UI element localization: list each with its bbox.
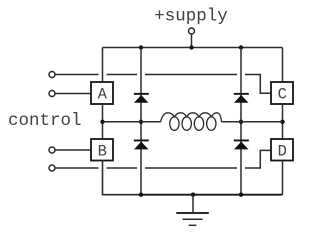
wire right bridge lower — [282, 161, 284, 195]
diode D4 lower-right — [234, 140, 249, 150]
node right diode bottom rail — [239, 193, 243, 197]
node left diode top of motor line — [139, 120, 143, 124]
wire bottom rail — [141, 194, 283, 196]
node top-right diode junction — [239, 45, 243, 49]
wire control C segment 4 to box — [245, 75, 271, 94]
wire right bridge middle — [282, 104, 284, 139]
switch B — [91, 139, 113, 161]
svg-text:+supply: +supply — [154, 7, 228, 27]
node supply junction — [189, 45, 193, 49]
node top-left diode junction — [139, 45, 143, 49]
wire motor line right — [221, 121, 282, 123]
terminal control 4 — [49, 165, 55, 171]
node left diode bottom rail — [139, 193, 143, 197]
diode D2 lower-left — [134, 140, 149, 150]
node right midpoint — [280, 120, 284, 124]
switch A — [91, 82, 113, 104]
wire left bridge middle — [102, 104, 104, 139]
node right diode motor line — [239, 120, 243, 124]
wire control D segment 2 — [107, 167, 138, 169]
ground — [176, 195, 209, 226]
wire control C segment 3 — [145, 74, 237, 76]
svg-text:C: C — [278, 86, 287, 104]
wire top rail — [103, 47, 283, 49]
wire control C segment 2 — [107, 74, 138, 76]
wire control C segment 1 — [55, 74, 99, 76]
switch C — [271, 82, 293, 104]
wire control D segment 1 — [55, 167, 99, 169]
wire supply stub — [191, 34, 193, 48]
terminal supply — [189, 28, 195, 34]
wire right bridge upper — [282, 48, 284, 83]
wire left bridge lower — [103, 161, 142, 195]
terminal control 2 — [49, 91, 55, 97]
wire control D segment 4 to box — [245, 150, 271, 168]
node ground junction — [191, 193, 195, 197]
inductor L1 motor — [161, 113, 222, 131]
node left midpoint — [100, 120, 104, 124]
diode D1 upper-left — [134, 93, 149, 103]
wire left diode branch — [140, 48, 142, 195]
wire control D segment 3 — [145, 167, 237, 169]
terminal control 3 — [49, 147, 55, 153]
wire control A — [55, 93, 91, 95]
switch D — [271, 139, 293, 161]
svg-text:A: A — [98, 86, 108, 104]
wire right diode branch — [240, 48, 242, 195]
svg-text:B: B — [98, 143, 107, 161]
wire motor line left — [103, 121, 161, 123]
svg-text:control: control — [8, 111, 82, 131]
diode D3 upper-right — [234, 93, 249, 103]
svg-text:D: D — [278, 143, 287, 161]
terminal control 1 — [49, 72, 55, 78]
wire left bridge upper — [102, 48, 104, 83]
wire control B — [55, 149, 91, 151]
